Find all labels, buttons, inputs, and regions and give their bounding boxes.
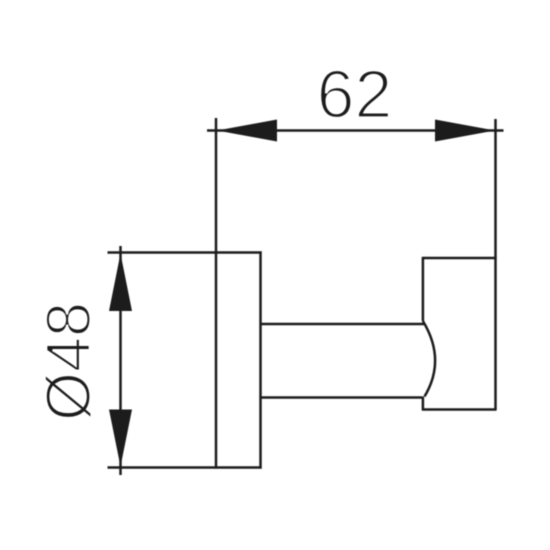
svg-text:Ø48: Ø48 <box>34 302 104 421</box>
svg-text:62: 62 <box>317 57 393 133</box>
